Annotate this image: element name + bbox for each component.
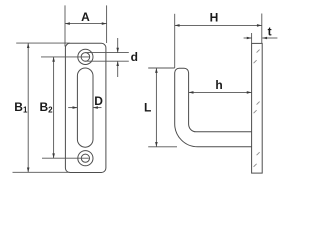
L dimension line [155, 68, 157, 147]
svg-text:t: t [268, 25, 272, 39]
B2 extension / centerline bottom [42, 157, 89, 159]
plate hatch marks [254, 50, 260, 167]
d extension line bottom [85, 60, 128, 62]
top hole outer circle [78, 49, 93, 64]
front plate outline [65, 43, 106, 172]
side view wall plate [252, 43, 263, 173]
svg-text:H: H [210, 11, 219, 25]
H extension line right [261, 14, 263, 44]
t extension line left [251, 33, 253, 43]
d dimension arrow bottom [117, 61, 119, 77]
B2 extension / centerline top [41, 56, 90, 58]
side view bracket arm [175, 68, 252, 147]
svg-text:B2: B2 [40, 100, 54, 114]
svg-text:h: h [215, 78, 222, 92]
t dimension arrow left [244, 37, 252, 39]
L extension line top [148, 67, 175, 69]
D dimension arrow right [93, 107, 102, 109]
L extension line bottom [148, 146, 177, 148]
svg-text:L: L [144, 101, 151, 115]
svg-text:d: d [131, 50, 138, 64]
slot [77, 68, 93, 147]
B1 extension line top [16, 42, 70, 44]
H extension line left [174, 14, 176, 68]
h dimension line [189, 91, 252, 93]
svg-text:B1: B1 [14, 100, 28, 114]
d dimension arrow top [117, 38, 119, 53]
D dimension arrow left [68, 107, 77, 109]
bottom hole inner circle [81, 154, 89, 162]
bottom hole outer circle [78, 151, 93, 166]
top hole inner circle [81, 53, 90, 62]
B2 dimension line [53, 57, 55, 158]
A extension line left [64, 5, 66, 46]
A extension line right [106, 5, 108, 43]
d extension line top [85, 52, 128, 54]
svg-text:A: A [81, 10, 90, 24]
H dimension line [175, 24, 262, 26]
svg-text:D: D [94, 94, 103, 108]
t dimension arrow right [262, 37, 277, 39]
B1 extension line bottom [13, 171, 70, 173]
A dimension line [65, 23, 107, 25]
B1 dimension line [27, 43, 29, 172]
